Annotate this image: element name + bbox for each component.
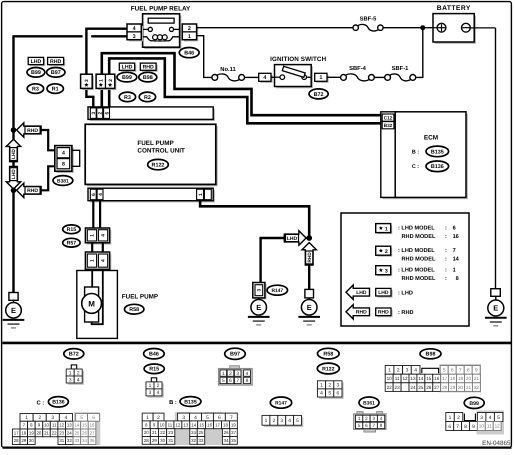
svg-text:29: 29 — [152, 438, 157, 443]
svg-text:IGNITION SWITCH: IGNITION SWITCH — [270, 56, 326, 63]
svg-text:1: 1 — [146, 415, 149, 421]
svg-text:3: 3 — [480, 415, 483, 421]
svg-text:4: 4 — [489, 415, 492, 421]
svg-text:SBF-1: SBF-1 — [392, 65, 410, 72]
ECM connector strip — [383, 114, 397, 200]
connector B99 inner — [117, 72, 137, 82]
connector R122 pin grid — [319, 383, 344, 399]
svg-text:LHD: LHD — [11, 149, 17, 159]
connector R147 box — [254, 284, 266, 299]
control unit top connector row — [90, 109, 215, 122]
svg-text:8: 8 — [456, 276, 459, 282]
svg-text:9: 9 — [475, 368, 478, 374]
svg-text:4: 4 — [133, 26, 136, 32]
svg-text:20: 20 — [466, 376, 472, 381]
wire SBF-4 to SBF-1 — [374, 76, 384, 78]
svg-text:5: 5 — [206, 415, 209, 421]
svg-text:30: 30 — [458, 385, 464, 390]
svg-text:: RHD: : RHD — [398, 310, 414, 316]
svg-text:2: 2 — [108, 79, 114, 82]
svg-text:EN-04865: EN-04865 — [482, 440, 511, 447]
svg-text:B97: B97 — [230, 352, 240, 358]
connector R58 box — [87, 254, 111, 271]
svg-text:C :: C : — [412, 164, 419, 170]
junction node ground split — [306, 235, 312, 241]
svg-text:B72: B72 — [314, 92, 324, 98]
svg-text:RHD: RHD — [307, 252, 313, 263]
ignition switch blade — [282, 66, 305, 77]
ground left — [9, 293, 18, 301]
svg-text::: : — [445, 234, 447, 240]
svg-text:3: 3 — [182, 415, 185, 421]
ignition switch box — [276, 66, 313, 88]
wire battery negative to right ground — [470, 27, 495, 29]
legend arrow LHD — [346, 285, 370, 299]
connector B98 inner — [139, 72, 157, 82]
svg-text:RHD: RHD — [378, 310, 389, 316]
svg-text:28: 28 — [144, 438, 149, 443]
svg-text:24: 24 — [410, 385, 416, 390]
svg-text:1: 1 — [90, 234, 96, 237]
legend marker *3 — [377, 267, 392, 276]
svg-text:FUEL PUMP: FUEL PUMP — [122, 294, 158, 301]
svg-text:E: E — [307, 303, 312, 312]
svg-text:FUEL PUMP RELAY: FUEL PUMP RELAY — [131, 5, 191, 12]
ECM pin C12 — [382, 114, 394, 121]
svg-text:19: 19 — [458, 376, 464, 381]
relay connector pins 4/3 — [129, 26, 143, 42]
connector B381 box — [57, 147, 74, 173]
svg-text:BATTERY: BATTERY — [437, 5, 471, 12]
relay contact circle left — [148, 27, 152, 31]
svg-text:23: 23 — [59, 430, 64, 435]
svg-text::: : — [445, 257, 447, 263]
svg-text:6: 6 — [365, 423, 368, 428]
connector B72 pin grid — [71, 365, 76, 369]
svg-text:1: 1 — [149, 383, 152, 389]
svg-text:LHD: LHD — [287, 236, 298, 242]
svg-text:3: 3 — [372, 416, 375, 421]
svg-text:32: 32 — [191, 438, 196, 443]
svg-text:16: 16 — [453, 234, 459, 240]
relay contact circle right — [169, 27, 173, 31]
svg-text:No.11: No.11 — [220, 67, 236, 73]
svg-text:3: 3 — [406, 368, 409, 374]
svg-text:25: 25 — [199, 430, 204, 435]
svg-text:34: 34 — [82, 438, 87, 443]
svg-text:: LHD MODEL: : LHD MODEL — [398, 268, 435, 274]
svg-text:8: 8 — [62, 162, 65, 168]
svg-text:LHD: LHD — [31, 59, 42, 65]
svg-text:B136: B136 — [52, 400, 65, 406]
connector R147 label bottom — [270, 397, 291, 408]
svg-text:R147: R147 — [275, 400, 287, 406]
svg-text:B381: B381 — [57, 178, 69, 184]
svg-text:31: 31 — [466, 385, 472, 390]
svg-text:1: 1 — [188, 34, 191, 40]
svg-text:B :: B : — [169, 400, 177, 406]
svg-text:27: 27 — [90, 430, 95, 435]
ground RHD middle — [301, 300, 317, 316]
svg-text:E: E — [256, 303, 261, 312]
wire SBF-1 to battery junction — [416, 28, 423, 78]
svg-text:1: 1 — [90, 259, 96, 262]
svg-text:B46: B46 — [149, 352, 159, 358]
svg-text:4: 4 — [320, 391, 323, 397]
connector R2 inner — [139, 92, 155, 102]
svg-text:5: 5 — [358, 423, 361, 428]
svg-text:13: 13 — [67, 423, 72, 428]
svg-text:R122: R122 — [322, 366, 335, 372]
svg-text:LHD: LHD — [356, 290, 367, 296]
connector R122 label bottom — [317, 363, 339, 374]
svg-text:21: 21 — [44, 430, 49, 435]
wire RHD branch to B381 pin8 — [41, 166, 55, 190]
svg-text:9: 9 — [472, 424, 475, 430]
svg-text:2: 2 — [98, 112, 104, 115]
svg-text:4: 4 — [414, 368, 417, 374]
svg-text:2: 2 — [365, 416, 368, 421]
svg-text:21: 21 — [474, 376, 480, 381]
connector R58 label bottom — [318, 348, 340, 359]
svg-text:28: 28 — [442, 385, 448, 390]
svg-text:6: 6 — [91, 193, 97, 196]
ignition switch contacts — [280, 75, 285, 80]
svg-text:5: 5 — [222, 378, 225, 384]
arrow RHD upper — [17, 123, 41, 137]
svg-text:SBF-5: SBF-5 — [360, 15, 378, 22]
svg-text:10: 10 — [387, 376, 393, 381]
svg-text:3: 3 — [91, 112, 97, 115]
svg-text:R3: R3 — [124, 95, 131, 101]
svg-text:6: 6 — [218, 415, 221, 421]
svg-text:17: 17 — [442, 376, 448, 381]
connector B99 pin grid — [477, 411, 505, 435]
svg-text:24: 24 — [67, 430, 72, 435]
connector B98 label bottom — [420, 349, 441, 359]
svg-text:4: 4 — [157, 390, 160, 396]
connector B97 label bottom — [225, 348, 246, 359]
svg-text:31: 31 — [168, 438, 173, 443]
svg-text:C :: C : — [36, 399, 44, 406]
svg-text:2: 2 — [77, 370, 80, 376]
svg-text::: : — [445, 268, 447, 274]
svg-text:27: 27 — [231, 430, 236, 435]
svg-text:11: 11 — [395, 376, 400, 381]
svg-text::: : — [445, 226, 447, 232]
svg-text:4: 4 — [288, 418, 291, 424]
section divider line — [3, 342, 512, 345]
svg-text:: LHD: : LHD — [398, 291, 413, 297]
svg-text:R57: R57 — [67, 241, 77, 247]
pump motor M — [82, 294, 102, 314]
junction node battery feed — [420, 25, 425, 30]
connector R147 label — [267, 285, 287, 295]
svg-text:4: 4 — [77, 377, 80, 383]
svg-text:3: 3 — [236, 371, 239, 377]
svg-text:B361: B361 — [363, 400, 375, 406]
svg-text:RHD: RHD — [27, 188, 38, 194]
svg-text:6: 6 — [453, 226, 456, 232]
svg-text:12: 12 — [175, 422, 180, 427]
svg-text:11: 11 — [487, 424, 492, 429]
svg-text:27: 27 — [434, 385, 440, 390]
svg-text:5: 5 — [443, 368, 446, 374]
svg-text:14: 14 — [191, 422, 196, 427]
svg-text:B32: B32 — [384, 123, 393, 128]
svg-text:16: 16 — [434, 376, 440, 381]
svg-text:3: 3 — [149, 390, 152, 396]
svg-text:CONTROL UNIT: CONTROL UNIT — [137, 148, 185, 155]
legend box LHD — [377, 290, 392, 298]
control unit bottom connector row — [90, 190, 215, 203]
wire R57 to R58 right — [102, 243, 104, 252]
legend box RHD — [377, 310, 392, 318]
svg-text:8: 8 — [467, 368, 470, 374]
connector R15 label — [63, 225, 80, 234]
svg-text:4: 4 — [263, 75, 266, 81]
svg-text:R1: R1 — [52, 87, 59, 93]
svg-text:E: E — [11, 306, 16, 315]
arrow LHD down — [6, 167, 20, 190]
svg-text:11: 11 — [52, 423, 57, 428]
svg-text:15: 15 — [199, 422, 204, 427]
svg-text:2: 2 — [188, 26, 191, 32]
svg-text:M: M — [88, 299, 95, 308]
svg-text:8: 8 — [246, 378, 249, 384]
svg-text:6: 6 — [229, 378, 232, 384]
relay contact bar — [148, 18, 174, 23]
svg-text:LHD: LHD — [11, 169, 17, 179]
svg-text:18: 18 — [223, 422, 228, 427]
svg-text:8: 8 — [464, 424, 467, 430]
svg-text:1: 1 — [388, 368, 391, 374]
wire into pump left — [91, 269, 93, 287]
svg-text:RHD: RHD — [50, 59, 61, 65]
battery box — [435, 15, 476, 43]
svg-text:RHD: RHD — [27, 128, 38, 134]
connector B361 pin grid — [357, 412, 363, 415]
svg-text:4: 4 — [246, 371, 249, 377]
svg-text:19: 19 — [29, 430, 34, 435]
svg-text:16: 16 — [90, 423, 95, 428]
svg-text:32: 32 — [67, 438, 72, 443]
legend marker *1 — [377, 225, 392, 234]
svg-text:RHD: RHD — [356, 310, 367, 316]
relay coil — [143, 37, 153, 41]
svg-text:R58: R58 — [129, 307, 139, 313]
pump inner body — [85, 287, 99, 322]
svg-text:5: 5 — [497, 415, 500, 421]
svg-text:RHD: RHD — [143, 65, 154, 71]
svg-text:1: 1 — [358, 416, 361, 421]
svg-text:1: 1 — [320, 383, 323, 389]
svg-text:24: 24 — [191, 430, 196, 435]
svg-text:4: 4 — [65, 415, 68, 421]
wire relay pin2 to SBF-5 — [197, 27, 353, 29]
fuel pump relay box — [144, 16, 181, 49]
svg-text:4: 4 — [98, 193, 104, 196]
legend marker *2 — [377, 248, 392, 257]
fuel pump box — [77, 271, 118, 339]
svg-text:28: 28 — [14, 438, 19, 443]
label LHD inner group — [121, 65, 136, 72]
svg-text:7: 7 — [459, 368, 462, 374]
svg-text:R122: R122 — [152, 163, 165, 169]
svg-text:25: 25 — [74, 430, 79, 435]
label RHD inner group — [142, 65, 158, 72]
svg-text:31: 31 — [59, 438, 64, 443]
svg-text:3: 3 — [385, 269, 388, 275]
wire ignition pin1 to SBF-4 — [327, 76, 341, 78]
svg-text:B :: B : — [412, 149, 419, 155]
svg-text:2: 2 — [385, 249, 388, 255]
svg-text:1: 1 — [265, 418, 268, 424]
arrow LHD up — [6, 139, 20, 162]
connector R15/R57 box — [87, 230, 111, 245]
svg-text::: : — [445, 276, 447, 282]
control unit label R122 — [148, 159, 169, 169]
relay connector pins 2/1 — [184, 26, 198, 42]
svg-text:R147: R147 — [271, 288, 283, 294]
svg-text:32: 32 — [474, 385, 480, 390]
wire control unit pin6 to ECM B32 — [109, 58, 381, 123]
svg-text:7: 7 — [372, 423, 375, 428]
connector B381 label — [53, 176, 73, 186]
svg-text:34: 34 — [224, 438, 229, 443]
wire left harness vertical — [12, 35, 14, 292]
svg-text:LHD: LHD — [378, 290, 389, 296]
svg-text:15: 15 — [426, 376, 432, 381]
svg-text:2: 2 — [328, 383, 331, 389]
connector B72 label bottom — [64, 349, 84, 359]
battery positive terminal — [437, 23, 446, 32]
svg-text:22: 22 — [387, 385, 393, 390]
svg-text:: LHD MODEL: : LHD MODEL — [398, 248, 435, 254]
svg-text:1: 1 — [198, 193, 204, 196]
connector B46 label bottom — [144, 349, 165, 359]
svg-text:22: 22 — [160, 430, 165, 435]
marker *1 *2 pair — [98, 76, 117, 90]
wire battery feed stub — [433, 27, 437, 29]
svg-text:6: 6 — [92, 415, 95, 421]
svg-text:2: 2 — [157, 383, 160, 389]
svg-text:14: 14 — [418, 376, 424, 381]
ECM box — [397, 114, 468, 200]
marker *3 — [82, 76, 94, 90]
arrow RHD lower — [17, 183, 41, 197]
svg-text:B136: B136 — [431, 164, 444, 170]
wire LHD ground branch — [261, 238, 285, 283]
svg-text:23: 23 — [168, 430, 173, 435]
svg-text:35: 35 — [90, 438, 95, 443]
connector B98 pin grid — [439, 364, 481, 393]
svg-text:33: 33 — [199, 438, 204, 443]
svg-text:25: 25 — [418, 385, 424, 390]
svg-text:R58: R58 — [323, 352, 333, 358]
svg-text:20: 20 — [144, 430, 149, 435]
connector R15 pin grid — [151, 378, 156, 382]
svg-text:B46: B46 — [184, 51, 194, 57]
wire control unit pin1 to ground junction — [200, 201, 309, 238]
ECM pin B32 — [382, 122, 394, 129]
connector R15 label bottom — [144, 364, 164, 374]
svg-text:35: 35 — [231, 438, 236, 443]
svg-text:3: 3 — [69, 377, 72, 383]
arrow RHD up — [302, 243, 316, 266]
svg-text:R2: R2 — [144, 95, 151, 101]
svg-text:7: 7 — [230, 415, 233, 421]
svg-text:B99: B99 — [469, 401, 479, 407]
connector B136 pin grid ECM C — [74, 412, 100, 445]
wire control unit pin4 to R15 — [99, 201, 101, 228]
svg-text:3: 3 — [257, 289, 263, 292]
svg-text:2: 2 — [157, 415, 160, 421]
svg-text:R15: R15 — [149, 367, 159, 373]
svg-text:B98: B98 — [143, 75, 153, 81]
wire relay pin4 to fuel pump control unit pin3 — [86, 29, 127, 74]
svg-text:1: 1 — [453, 268, 456, 274]
svg-text:B99: B99 — [31, 70, 41, 76]
svg-text:3: 3 — [337, 383, 340, 389]
connector R3 inner — [119, 92, 135, 102]
svg-text:8: 8 — [380, 423, 383, 428]
connector B46 — [179, 48, 199, 58]
wire RHD branch to B381 pin4 — [41, 130, 55, 150]
svg-text:4: 4 — [101, 259, 107, 262]
wire control unit pin2 to ECM C12 — [102, 53, 381, 115]
connector B361 label bottom — [359, 397, 379, 408]
legend arrow RHD — [346, 305, 370, 319]
svg-text:12: 12 — [402, 376, 408, 381]
svg-text:1: 1 — [99, 79, 105, 82]
svg-text:29: 29 — [21, 438, 26, 443]
svg-text:1: 1 — [25, 415, 28, 421]
svg-text:7: 7 — [236, 378, 239, 384]
svg-text:B99: B99 — [122, 75, 132, 81]
svg-text:18: 18 — [450, 376, 456, 381]
svg-text:B98: B98 — [426, 352, 436, 358]
connector B97 left — [47, 68, 65, 78]
svg-text:1: 1 — [222, 371, 225, 377]
ground LHD middle — [251, 300, 267, 316]
svg-text:18: 18 — [21, 430, 26, 435]
svg-text:2: 2 — [272, 418, 275, 424]
svg-text:6: 6 — [448, 424, 451, 430]
svg-text:1: 1 — [69, 370, 72, 376]
ignition switch pin 1 — [316, 75, 328, 83]
svg-text:30: 30 — [160, 438, 165, 443]
junction node left upper — [11, 127, 17, 133]
wire R57 to R58 left — [91, 243, 93, 252]
svg-text:2: 2 — [457, 415, 460, 421]
svg-text:14: 14 — [453, 257, 460, 263]
connector R147 pin grid — [264, 417, 304, 427]
svg-text:5: 5 — [328, 391, 331, 397]
svg-text:17: 17 — [215, 422, 220, 427]
wire into pump right and bypass — [92, 269, 103, 324]
svg-text:20: 20 — [36, 430, 41, 435]
svg-text:14: 14 — [74, 423, 79, 428]
svg-text:26: 26 — [82, 430, 87, 435]
svg-text:4: 4 — [380, 416, 383, 421]
connector R57 label — [63, 238, 80, 247]
svg-text:2: 2 — [397, 368, 400, 374]
svg-text:LHD: LHD — [122, 65, 133, 71]
wire relay pin3 to left harness — [91, 35, 127, 37]
svg-text:B72: B72 — [69, 352, 79, 358]
svg-text:FUEL PUMP: FUEL PUMP — [137, 140, 173, 147]
